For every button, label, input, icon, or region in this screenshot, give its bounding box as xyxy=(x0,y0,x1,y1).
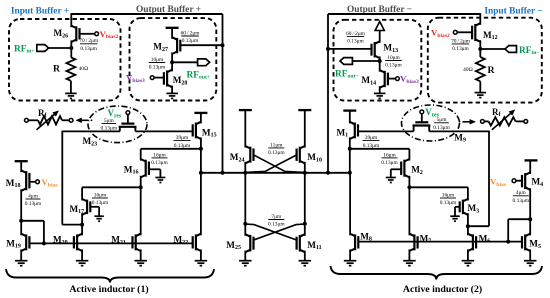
wire M16 top xyxy=(141,148,201,150)
wire M17 drain drop xyxy=(81,187,83,200)
svg-text:0.13μm: 0.13μm xyxy=(385,63,402,69)
wire M19 drain xyxy=(20,221,22,236)
brace Active inductor (1) xyxy=(6,269,214,283)
wire M4 source to node xyxy=(529,188,531,235)
wire RFin+ port to node xyxy=(48,47,71,49)
wire M3 drain drop xyxy=(467,187,469,200)
dashed box Output Buffer - xyxy=(334,20,422,101)
transistor M4 xyxy=(525,172,530,175)
dashed box Output Buffer + xyxy=(130,18,217,100)
ground M21 xyxy=(134,260,147,262)
wire M16 gate stub to ground xyxy=(149,168,161,170)
node M25 drain junction xyxy=(243,222,247,226)
ground M28 xyxy=(166,92,178,94)
wire M23 to M15 gate xyxy=(135,130,193,132)
wire M21 source to ground xyxy=(140,249,142,260)
svg-text:0.13μm: 0.13μm xyxy=(381,160,398,166)
svg-text:0.13μm: 0.13μm xyxy=(182,38,199,44)
wire M21 drain xyxy=(140,187,142,235)
transistor M20 xyxy=(77,234,82,237)
wire M12 gate to Vbias2 xyxy=(457,31,472,33)
wire diode link vertical M4 xyxy=(507,219,509,241)
svg-text:R: R xyxy=(53,64,61,75)
wire to RFout+ port xyxy=(172,61,198,63)
wire M12 drain xyxy=(479,13,481,25)
wire M11 source to ground xyxy=(304,251,306,261)
svg-text:Input Buffer +: Input Buffer + xyxy=(11,7,69,17)
svg-text:0.13μm: 0.13μm xyxy=(268,150,285,156)
control arrow M23 to Rf xyxy=(82,119,89,121)
wire M4 gate to Vbias xyxy=(516,180,522,182)
svg-text:40Ω: 40Ω xyxy=(79,66,89,72)
wire M22 drain xyxy=(200,173,202,236)
control arrow M9 to Rf xyxy=(459,121,461,123)
ground M7 xyxy=(403,260,416,262)
ground M2 gate xyxy=(386,177,396,179)
svg-text:10μm: 10μm xyxy=(387,55,400,61)
transistor M7 xyxy=(409,234,414,237)
node RFout+ junction xyxy=(170,60,174,64)
ground M5 xyxy=(524,260,537,262)
wire M22 source to ground xyxy=(200,249,202,260)
wire Vres stem + xyxy=(127,114,129,123)
wire M2 top xyxy=(350,148,410,150)
wire M5 source to ground xyxy=(529,249,531,260)
transistor M12 xyxy=(475,23,480,26)
terminal Vbias - xyxy=(512,179,516,183)
wire M7 drain xyxy=(408,187,410,235)
ground M14 xyxy=(374,92,386,94)
ground M19 xyxy=(15,260,28,262)
transistor M6 xyxy=(468,234,473,237)
power VDD T-bar M24 xyxy=(239,109,252,111)
wire R to ground - xyxy=(479,81,481,92)
dash-dot ellipse M23 tuning xyxy=(88,106,147,143)
wire gate bus right xyxy=(358,241,522,243)
node M17 source / M20 drain junction xyxy=(80,223,84,227)
wire M13 gate to node B xyxy=(328,48,372,50)
transistor M8 xyxy=(350,234,355,237)
terminal Rf right inner xyxy=(481,120,485,124)
terminal Rf right outer xyxy=(524,120,528,124)
power VDD T-bar M18 xyxy=(15,160,28,162)
wire M27 gate to node A xyxy=(180,44,223,46)
wire node to RFin- port xyxy=(480,48,505,50)
node M1 source / M2 wire junction xyxy=(348,147,352,151)
wire M12 source to node RFin- xyxy=(479,40,481,57)
wire M15 source to bus xyxy=(200,137,202,172)
transistor M3 xyxy=(463,199,468,202)
wire M3 source to node xyxy=(467,213,469,226)
wire M8 drain xyxy=(349,173,351,236)
wire M25 drain drop xyxy=(244,173,246,236)
wire M3 gate stub to ground xyxy=(455,206,460,208)
wire M16 drain drop xyxy=(140,149,142,161)
terminal Vbias2 + xyxy=(95,32,99,36)
wire M4 drain xyxy=(529,160,531,174)
svg-text:60 / 2μm: 60 / 2μm xyxy=(181,30,201,36)
node M16 source junction xyxy=(139,185,143,189)
ground M20 xyxy=(76,260,89,262)
wire M14 gate to Vbias3 xyxy=(388,78,396,80)
svg-text:70 / 2μm: 70 / 2μm xyxy=(79,38,99,44)
wire M18 drain xyxy=(20,161,22,172)
svg-text:11μm: 11μm xyxy=(270,142,283,148)
svg-text:16μm: 16μm xyxy=(153,152,166,158)
transistor M25 xyxy=(245,234,250,237)
node A bus junction xyxy=(221,171,225,175)
wire M23 channel row left xyxy=(62,130,120,132)
svg-text:16μm: 16μm xyxy=(383,152,396,158)
ground M22 xyxy=(195,260,208,262)
node gate bus junction left xyxy=(42,241,46,245)
wire M1 drain xyxy=(349,111,351,124)
transistor M27 xyxy=(172,37,177,40)
svg-text:0.13μm: 0.13μm xyxy=(433,125,450,131)
node bus left end junction xyxy=(199,171,203,175)
wire M20 source to ground xyxy=(81,249,83,260)
power VDD T-bar M1 xyxy=(343,109,356,111)
wire M13 source to M14 drain xyxy=(379,57,381,72)
transistor M1 xyxy=(350,122,355,125)
transistor M9 (horizontal) xyxy=(415,121,428,123)
svg-text:0.13μm: 0.13μm xyxy=(513,198,530,204)
svg-text:R: R xyxy=(488,65,496,76)
node bus right end junction xyxy=(348,171,352,175)
wire main bus row xyxy=(201,172,350,174)
wire M23 left drop xyxy=(61,131,63,225)
ground M6 xyxy=(462,260,475,262)
transistor M26 xyxy=(71,26,76,29)
node M2 source junction xyxy=(407,185,411,189)
node B bus junction xyxy=(326,171,330,175)
arrow across Rf right xyxy=(492,113,511,129)
node M18 source / M19 drain junction xyxy=(19,219,23,223)
transistor M21 xyxy=(136,234,141,237)
svg-text:4μm: 4μm xyxy=(28,193,39,199)
dashed box Input Buffer - xyxy=(428,18,542,103)
wire M18 gate to Vbias xyxy=(29,181,36,183)
arrow across Rf left xyxy=(37,114,55,129)
wire M11 drain drop xyxy=(304,173,306,236)
svg-text:16μm: 16μm xyxy=(94,192,107,198)
transistor M2 xyxy=(404,159,409,162)
wire diode link horizontal M4 xyxy=(508,218,530,220)
wire M24 source to bus xyxy=(244,162,246,173)
transistor M22 xyxy=(196,234,201,237)
transistor M15 xyxy=(196,122,201,125)
transistor M11 xyxy=(300,234,305,237)
resistor Rf left (variable) xyxy=(38,116,62,124)
wire node to right drop xyxy=(468,225,489,227)
wire M24 cross-couple to M10 source xyxy=(254,155,305,172)
port RFout+ xyxy=(198,59,210,66)
ground M11 xyxy=(299,260,312,262)
node M11 drain junction xyxy=(303,222,307,226)
svg-text:0.13μm: 0.13μm xyxy=(149,65,166,71)
node RFout- junction xyxy=(378,59,382,63)
terminal Rf left outer xyxy=(25,118,29,122)
ground M8 xyxy=(344,260,357,262)
terminal Vbias + xyxy=(36,180,40,184)
terminal Rf left inner xyxy=(69,118,73,122)
power VDD T-bar M4 xyxy=(525,159,538,161)
wire Rf left outer xyxy=(28,119,38,121)
wire M9 right drop xyxy=(488,131,490,227)
wire M26 drain xyxy=(70,13,72,27)
brace Active inductor (2) xyxy=(331,266,543,280)
wire M25 source to ground xyxy=(244,251,246,261)
svg-text:40Ω: 40Ω xyxy=(463,67,473,73)
wire R to ground + xyxy=(70,81,72,94)
svg-text:5μm: 5μm xyxy=(104,118,115,124)
wire M27 drain xyxy=(171,28,173,39)
wire M17 gate stub to ground xyxy=(90,206,99,208)
dash-dot ellipse M9 tuning xyxy=(402,105,460,141)
node M24 source junction xyxy=(243,171,247,175)
ground M17 gate xyxy=(94,215,104,217)
wire to RFout- port xyxy=(351,60,380,62)
svg-text:5μm: 5μm xyxy=(437,117,448,123)
transistor M24 xyxy=(245,146,250,149)
node B junction M13 gate xyxy=(326,47,330,51)
transistor M19 xyxy=(21,234,26,237)
terminal Vres + xyxy=(126,111,130,115)
wire drop to M20 drain node xyxy=(62,224,82,226)
wire M26 source to node RFin+ xyxy=(70,40,72,57)
resistor Rf right (variable) xyxy=(489,117,516,125)
svg-text:16μm: 16μm xyxy=(442,192,455,198)
wire M3 top from M2 xyxy=(409,186,468,188)
wire node B vertical drop xyxy=(327,14,329,173)
power VDD T-bar M15 xyxy=(194,112,207,114)
wire node A vertical drop xyxy=(222,14,224,173)
wire M20 drain xyxy=(81,225,83,236)
wire Rf right inner xyxy=(484,120,488,122)
wire gate bus left xyxy=(29,242,193,244)
wire Rf right outer xyxy=(516,120,524,122)
svg-text:0.13μm: 0.13μm xyxy=(92,200,109,206)
port RFin- xyxy=(505,46,517,53)
transistor M18 xyxy=(21,170,26,173)
wire M28 gate to Vbias3 xyxy=(154,77,164,79)
wire M1 gate to M9 xyxy=(358,130,414,132)
power VDD triangle M13 xyxy=(375,22,384,31)
wire M2 gate stub to ground xyxy=(391,168,402,170)
wire M18 source to node xyxy=(20,189,22,221)
transistor M28 xyxy=(167,70,172,73)
wire M2 source down xyxy=(408,176,410,188)
wire M10 cross-couple to M24 source xyxy=(245,155,296,172)
ground M25 xyxy=(239,260,252,262)
terminal Vbias2 - xyxy=(453,30,457,34)
wire M10 drain xyxy=(304,110,306,148)
port RFin+ xyxy=(37,45,49,52)
wire M28 source to ground xyxy=(171,86,173,94)
wire M27 source to M28 drain xyxy=(171,52,173,71)
wire M9 channel row right xyxy=(429,130,489,132)
svg-text:0.13μm: 0.13μm xyxy=(452,46,469,52)
svg-text:39μm: 39μm xyxy=(365,135,378,141)
svg-text:0.13μm: 0.13μm xyxy=(440,200,457,206)
node M15 source / M16 wire junction xyxy=(199,147,203,151)
node M3 source / M6 drain junction xyxy=(466,224,470,228)
wire M15 drain xyxy=(200,113,202,124)
svg-text:0.13μm: 0.13μm xyxy=(80,46,97,52)
svg-text:39μm: 39μm xyxy=(176,135,189,141)
ground M16 gate xyxy=(155,177,165,179)
node gate bus junction right xyxy=(506,240,510,244)
wire M2 drain drop xyxy=(408,149,410,161)
svg-text:70 / 2μm: 70 / 2μm xyxy=(451,38,471,44)
node M4 source / M5 drain junction xyxy=(528,217,532,221)
node A junction M27 gate xyxy=(221,43,225,47)
transistor M16 xyxy=(141,159,146,162)
node RFin- junction xyxy=(478,47,482,51)
wire M14 source to ground xyxy=(379,86,381,93)
wire M6 source to ground xyxy=(467,249,469,260)
transistor M5 xyxy=(525,234,530,237)
wire M17 top from M16 xyxy=(82,186,141,188)
svg-text:60 / 2μm: 60 / 2μm xyxy=(346,31,366,37)
ground R input buffer + xyxy=(65,92,77,94)
wire M10 source to bus xyxy=(304,162,306,173)
wire M8 source to ground xyxy=(349,249,351,260)
wire M25 cross-couple to M11 gate xyxy=(245,224,297,240)
wire M6 drain xyxy=(467,226,469,235)
node M10 source junction xyxy=(303,171,307,175)
power VDD T-bar M27 xyxy=(166,27,179,29)
port RFout- xyxy=(340,58,352,65)
wire Vres stem - xyxy=(421,114,423,123)
terminal Vbias3 + xyxy=(150,76,154,80)
resistor R input buffer - xyxy=(476,57,485,81)
ground M3 gate xyxy=(450,215,460,217)
svg-text:Active inductor (2): Active inductor (2) xyxy=(403,284,482,295)
svg-text:Input Buffer −: Input Buffer − xyxy=(484,7,542,17)
transistor M14 xyxy=(380,70,385,73)
wire top rail right (node B to M12 drain) xyxy=(328,13,480,15)
svg-text:7μm: 7μm xyxy=(271,214,282,220)
svg-text:Active inductor (1): Active inductor (1) xyxy=(69,284,148,295)
wire M19 source to ground xyxy=(20,249,22,260)
wire M26 gate to Vbias2 xyxy=(79,33,95,35)
wire top rail left (M26 drain to node A drop) xyxy=(71,13,222,15)
terminal Vres - xyxy=(420,110,424,114)
wire diode link vertical M18 xyxy=(43,221,45,244)
dashed box Input Buffer + xyxy=(9,19,121,101)
terminal Vbias3 - xyxy=(396,77,400,81)
svg-text:10μm: 10μm xyxy=(151,57,164,63)
transistor M10 xyxy=(300,146,305,149)
wire M17 source to node xyxy=(81,213,83,224)
wire diode link horizontal M18 xyxy=(21,220,44,222)
svg-text:0.13μm: 0.13μm xyxy=(151,160,168,166)
wire Rf left inner xyxy=(62,119,69,121)
transistor M23 (horizontal) xyxy=(121,122,134,124)
wire M16 source down xyxy=(140,176,142,188)
power VDD T-bar M10 xyxy=(298,109,311,111)
node RFin+ junction xyxy=(69,46,73,50)
svg-text:0.13μm: 0.13μm xyxy=(268,222,285,228)
transistor M17 xyxy=(82,199,87,202)
resistor R input buffer + xyxy=(67,57,76,81)
transistor M13 xyxy=(375,41,380,44)
wire M1 source to bus xyxy=(349,137,351,172)
svg-text:0.13μm: 0.13μm xyxy=(347,39,364,45)
wire M7 source to ground xyxy=(408,249,410,260)
wire M24 drain xyxy=(244,110,246,148)
svg-text:0.13μm: 0.13μm xyxy=(25,201,42,207)
ground R input buffer - xyxy=(475,92,487,94)
svg-text:4μm: 4μm xyxy=(516,190,527,196)
wire M11 cross-couple to M25 gate xyxy=(253,224,305,240)
